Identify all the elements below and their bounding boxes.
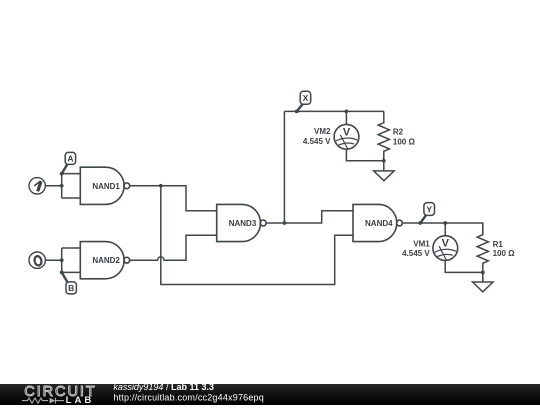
node X pointer <box>297 104 303 111</box>
wire node X horizontal top <box>284 110 383 112</box>
svg-text:NAND3: NAND3 <box>229 219 257 228</box>
svg-text:A: A <box>67 154 73 164</box>
wire NAND1 out down long branch <box>161 186 353 285</box>
node Y pointer <box>420 215 425 223</box>
op-amp gate NAND1 <box>80 167 129 204</box>
input source 1 <box>29 178 45 194</box>
svg-text:100 Ω: 100 Ω <box>393 137 416 146</box>
voltmeter VM2 <box>334 124 359 149</box>
node R1 ground junction dot <box>481 271 485 275</box>
wire vertical bus NAND1 inputs <box>61 174 63 198</box>
wire NAND3 output <box>266 222 284 224</box>
resistor R1 <box>477 223 488 272</box>
svg-text:R1: R1 <box>493 240 504 249</box>
wire NAND3 out to NAND4 top input <box>284 211 353 223</box>
wire VM1 bottom <box>445 261 483 273</box>
wire input1 to bus <box>46 185 62 187</box>
wire VM2 bottom <box>346 149 383 161</box>
op-amp gate NAND2 <box>80 242 129 279</box>
wire NAND1 input a <box>62 173 81 175</box>
wire NAND4 output <box>402 222 445 224</box>
wire NAND1 output <box>130 185 161 187</box>
node A pointer <box>62 164 68 173</box>
wire vertical bus NAND2 inputs <box>61 248 63 272</box>
input source 0 <box>29 252 45 268</box>
ground below R1 <box>473 272 494 291</box>
node junction dot <box>60 258 64 262</box>
op-amp gate NAND3 <box>217 204 266 241</box>
node A dot <box>60 172 64 176</box>
svg-text:4.545 V: 4.545 V <box>402 249 430 258</box>
node VM1 branch dot <box>443 221 447 225</box>
node NAND3 out junction <box>283 221 287 225</box>
svg-text:B: B <box>68 283 74 293</box>
R1 labels <box>493 240 516 258</box>
node R2 ground junction dot <box>382 159 386 163</box>
wire NAND2 input b <box>62 271 81 273</box>
svg-text:VM2: VM2 <box>314 127 331 136</box>
VM1 value labels <box>402 239 430 258</box>
node junction dot <box>60 184 64 188</box>
node X dot <box>295 110 299 114</box>
node Y dot <box>418 221 422 225</box>
svg-text:X: X <box>303 93 309 103</box>
wire to VM1 top <box>444 223 446 236</box>
footer bar <box>0 382 540 406</box>
svg-text:NAND1: NAND1 <box>92 182 120 191</box>
ground below R2 <box>374 161 395 181</box>
svg-text:V: V <box>442 238 450 250</box>
node B label <box>66 282 76 294</box>
resistor R2 <box>378 111 389 160</box>
op-amp gate NAND4 <box>353 204 402 241</box>
node Y label <box>424 203 435 216</box>
node A label <box>65 152 75 164</box>
node B dot <box>60 271 64 275</box>
svg-text:NAND4: NAND4 <box>365 219 393 228</box>
logo squiggle resistor-diode <box>22 398 64 404</box>
VM2 value labels <box>303 127 331 146</box>
svg-text:kassidy9194 / Lab 11 3.3: kassidy9194 / Lab 11 3.3 <box>113 382 214 392</box>
svg-text:4.545 V: 4.545 V <box>303 137 331 146</box>
svg-text:R2: R2 <box>393 128 404 137</box>
node X label <box>300 91 311 104</box>
wire node X vertical <box>283 111 285 223</box>
node VM2 branch dot <box>345 110 349 114</box>
svg-text:Y: Y <box>426 204 432 214</box>
svg-text:100 Ω: 100 Ω <box>493 249 516 258</box>
wire NAND2 output with hop over vertical <box>130 235 217 260</box>
svg-text:http://circuitlab.com/cc2g44x9: http://circuitlab.com/cc2g44x976epq <box>113 392 264 402</box>
wire to NAND3 top input <box>161 186 217 211</box>
svg-text:NAND2: NAND2 <box>92 256 120 265</box>
R2 labels <box>393 128 416 147</box>
svg-text:LAB: LAB <box>66 395 95 405</box>
voltmeter VM1 <box>433 236 458 261</box>
node B pointer <box>62 272 68 282</box>
svg-text:V: V <box>343 126 351 138</box>
node NAND1 out junction <box>159 184 163 188</box>
wire input0 to bus <box>46 259 62 261</box>
wire Y junction to R1 top <box>445 223 483 235</box>
wire NAND2 input a <box>62 247 81 249</box>
wire NAND1 input b <box>62 197 81 199</box>
wire to VM2 top <box>345 111 347 124</box>
svg-text:VM1: VM1 <box>413 239 430 248</box>
